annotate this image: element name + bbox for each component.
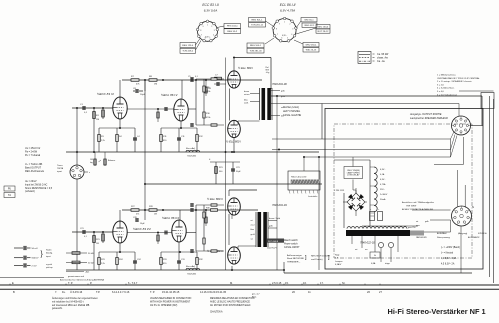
svg-text:Pa = 2×6W: Pa = 2×6W — [25, 151, 38, 154]
svg-text:1 = Mittelanschluss: 1 = Mittelanschluss — [437, 74, 457, 77]
svg-text:mit induktiver Ind. M-400+60: mit induktiver Ind. M-400+600 t — [52, 300, 84, 303]
svg-text:AUTOMATIK: AUTOMATIK — [467, 236, 480, 239]
svg-text:6.12.4.3.7.9.16: 6.12.4.3.7.9.16 — [112, 290, 130, 294]
svg-text:PARLEURS: PARLEURS — [416, 236, 427, 239]
svg-text:AV AUX CONTACTS A DAN/LIFE: AV AUX CONTACTS A DAN/LIFE — [401, 208, 434, 211]
svg-text:2: 2 — [289, 23, 290, 25]
svg-text:+Ug: +Ug — [266, 72, 270, 74]
svg-text:P.: P. — [90, 281, 92, 285]
svg-text:gelb: gelb — [425, 221, 429, 223]
svg-text:Us = 25mV für: Us = 25mV für — [25, 147, 41, 150]
svg-text:½ECL 86 I'2: ½ECL 86 I'2 — [161, 93, 178, 97]
svg-text:WITH HIGH POWER IN INSTRUMEN: WITH HIGH POWER IN INSTRUMENT — [150, 301, 191, 303]
svg-text:Ca - Au: Ca - Au — [377, 60, 386, 63]
svg-text:STECK A: STECK A — [478, 232, 487, 235]
svg-text:Bandg.: Bandg. — [46, 253, 53, 255]
svg-text:9: 9 — [279, 23, 280, 25]
svg-text:7: 7 — [277, 34, 278, 36]
svg-text:7.: 7. — [55, 290, 57, 294]
svg-text:5 = 4,6: 5 = 4,6 — [437, 91, 445, 93]
svg-text:470k: 470k — [206, 91, 210, 93]
svg-text:6,3V ~: 6,3V ~ — [282, 35, 287, 37]
svg-text:pick-up: pick-up — [45, 267, 54, 269]
svg-text:E: E — [12, 281, 14, 285]
svg-text:3: 3 — [214, 30, 215, 32]
svg-text:ROT-GELB: ROT-GELB — [268, 241, 279, 243]
svg-text:blau: blau — [251, 229, 255, 231]
svg-text:1M: 1M — [90, 159, 93, 161]
svg-text:Strom RESISTANCE = 0,5: Strom RESISTANCE = 0,5 — [25, 187, 53, 190]
svg-text:grün: grün — [281, 96, 285, 98]
svg-text:AVEC LE BLOC HAUTE FREQUENCE: AVEC LE BLOC HAUTE FREQUENCE — [210, 300, 250, 303]
svg-text:ECC 83 I-II: ECC 83 I-II — [202, 3, 218, 7]
svg-text:5: 5 — [287, 38, 288, 40]
svg-text:WID 23-15: WID 23-15 — [306, 50, 317, 52]
svg-text:und Primär): und Primär) — [311, 258, 323, 261]
svg-text:Rauch switch: Rauch switch — [284, 239, 298, 242]
svg-text:LEFT CHANNEL: LEFT CHANNEL — [283, 110, 301, 113]
svg-text:47k: 47k — [136, 214, 139, 216]
svg-text:3 = 2,6: 3 = 2,6 — [437, 84, 445, 86]
svg-text:1M: 1M — [154, 84, 157, 86]
svg-text:input: input — [46, 255, 51, 258]
svg-text:REG 123-4: REG 123-4 — [182, 45, 194, 47]
svg-text:träge: träge — [385, 262, 391, 265]
svg-text:Input bei 2W/16 Ω AC: Input bei 2W/16 Ω AC — [25, 183, 48, 186]
svg-text:6,3V~: 6,3V~ — [380, 179, 386, 181]
svg-text:THE VIEW: THE VIEW — [406, 205, 417, 207]
svg-text:1M: 1M — [96, 119, 99, 121]
svg-text:Rechter (unten): Rechter (unten) — [283, 106, 299, 109]
svg-text:AS P.U.Ω. OHM/EMF (MV): AS P.U.Ω. OHM/EMF (MV) — [150, 304, 178, 307]
svg-text:TB/TA: TB/TA — [57, 167, 64, 170]
svg-text:2(U) HL-FI: 2(U) HL-FI — [267, 248, 277, 250]
svg-text:TA: TA — [8, 194, 11, 197]
svg-text:ROT 28-12: ROT 28-12 — [318, 31, 330, 33]
svg-text:6,3V ~: 6,3V ~ — [205, 36, 210, 38]
svg-text:14.16.0.W.20.15.21.05: 14.16.0.W.20.15.21.05 — [200, 290, 227, 294]
svg-text:9: 9 — [203, 26, 204, 28]
svg-text:1M: 1M — [96, 243, 99, 245]
svg-text:1: 1 — [284, 22, 285, 24]
svg-text:½ECC 83 I'2: ½ECC 83 I'2 — [97, 92, 114, 96]
svg-text:0,1A: 0,1A — [380, 173, 385, 176]
svg-text:6,3V 0,6A: 6,3V 0,6A — [204, 9, 218, 13]
svg-text:Anschlüsse auf / Ölfüllwendgre: Anschlüsse auf / Ölfüllwendgreifen — [401, 201, 435, 204]
svg-text:3: 3 — [292, 28, 293, 30]
svg-text:braun / Gelb: braun / Gelb — [269, 218, 281, 220]
svg-text:Balance: Balance — [108, 160, 116, 162]
svg-text:50 kΩ: 50 kΩ — [88, 262, 94, 264]
svg-text:½ ELL 800 II: ½ ELL 800 II — [207, 197, 223, 201]
svg-text:+Ant: +Ant — [85, 271, 90, 274]
svg-text:PU: PU — [8, 188, 12, 191]
svg-text:T.P.: T.P. — [96, 290, 100, 294]
svg-text:½ECL 86 II'2: ½ECL 86 II'2 — [162, 216, 180, 220]
svg-text:55V~: 55V~ — [380, 189, 386, 191]
svg-text:4,75A: 4,75A — [380, 183, 386, 186]
svg-text:15.21.10.05.15: 15.21.10.05.15 — [162, 290, 180, 294]
svg-text:Ue = 20mV: Ue = 20mV — [25, 181, 37, 183]
svg-text:CANAL DROIT: CANAL DROIT — [284, 246, 300, 249]
svg-text:F 234 1113: F 234 1113 — [334, 190, 345, 192]
svg-text:Radio: Radio — [46, 250, 52, 252]
svg-text:AUSWAHL: AUSWAHL — [436, 232, 447, 235]
svg-text:7040-091-04: 7040-091-04 — [272, 203, 287, 207]
svg-text:7040-091-00: 7040-091-00 — [272, 82, 287, 86]
svg-text:AU MOYEN D'UN INSTRUMENT ELE: AU MOYEN D'UN INSTRUMENT ELEC — [210, 304, 251, 307]
svg-text:ws-rt: ws-rt — [251, 224, 256, 227]
svg-text:8: 8 — [276, 28, 277, 30]
svg-text:REC-Pu/channels: REC-Pu/channels — [25, 170, 45, 173]
svg-text:½ ELL 800 I: ½ ELL 800 I — [238, 66, 253, 70]
svg-text:50µF: 50µF — [236, 171, 241, 173]
svg-text:Abst.: Abst. — [252, 296, 257, 299]
svg-text:(schwarz): (schwarz) — [25, 190, 35, 193]
svg-text:Lautstärke: Lautstärke — [308, 195, 318, 198]
svg-text:Lampen: Lampen — [335, 261, 343, 263]
svg-text:6: 6 — [281, 38, 282, 40]
svg-text:7040-022-01: 7040-022-01 — [360, 241, 375, 245]
svg-text:REG 55-2: REG 55-2 — [227, 31, 238, 33]
svg-text:TON 281-04: TON 281-04 — [250, 50, 263, 52]
svg-text:Band OUTPUT: Band OUTPUT — [25, 167, 42, 170]
svg-text:Power switch: Power switch — [284, 243, 298, 246]
svg-text:getauscht.: getauscht. — [52, 307, 63, 310]
svg-text:Höhen 2(s) treble: Höhen 2(s) treble — [291, 176, 307, 179]
svg-text:2,2k: 2,2k — [101, 140, 105, 142]
svg-text:WID 65-1: WID 65-1 — [304, 19, 314, 21]
svg-text:Netzspannung: Netzspannung — [437, 236, 451, 239]
svg-text:½ECC 83 II'2: ½ECC 83 II'2 — [133, 227, 151, 231]
svg-text:T. P.: T. P. — [68, 281, 73, 285]
svg-text:B: B — [13, 290, 15, 294]
svg-text:grau: grau — [416, 224, 420, 227]
svg-text:Bass-Adj.: Bass-Adj. — [186, 265, 196, 268]
svg-text:CENTRALIZADOR 7 PIN 8 CLIP CE: CENTRALIZADOR 7 PIN 8 CLIP CENTRAL — [437, 77, 480, 80]
svg-text:REG 02-1: REG 02-1 — [305, 25, 316, 27]
svg-text:6 - T.4.7: 6 - T.4.7 — [128, 281, 138, 285]
svg-text:2×300V: 2×300V — [380, 193, 388, 196]
svg-text:crystal: crystal — [46, 263, 53, 266]
svg-text:VALVES MEASURED IN CONNECTION: VALVES MEASURED IN CONNECTION — [150, 297, 192, 300]
svg-text:Außenanzeiger: Außenanzeiger — [287, 254, 302, 257]
svg-text:Nr.: Nr. — [342, 281, 346, 285]
svg-text:LOW DELAY: LOW DELAY — [347, 173, 360, 176]
svg-text:16µF: 16µF — [140, 223, 145, 225]
svg-text:Ü.S.P.9.16: Ü.S.P.9.16 — [70, 290, 83, 294]
svg-text:blau: blau — [244, 99, 248, 101]
svg-text:ECL 86 I-II: ECL 86 I-II — [280, 3, 296, 7]
svg-text:Ausgangs- OUTPUT SORTIE: Ausgangs- OUTPUT SORTIE — [409, 113, 442, 116]
svg-text:REG 921-1: REG 921-1 — [252, 19, 264, 21]
svg-text:500mV: 500mV — [32, 258, 39, 260]
svg-text:½ ELL 800 I: ½ ELL 800 I — [226, 140, 241, 144]
svg-text:4 = 3,4 Anschluss: 4 = 3,4 Anschluss — [437, 87, 455, 90]
svg-text:log: log — [90, 162, 93, 164]
svg-text:1M: 1M — [154, 214, 157, 216]
svg-text:TON 429-2: TON 429-2 — [182, 51, 194, 53]
svg-text:470k: 470k — [206, 117, 210, 119]
svg-text:15.: 15. — [285, 281, 289, 285]
svg-text:[~ = +230V (Band): [~ = +230V (Band) — [441, 247, 460, 249]
svg-text:CANAL GAUCHE: CANAL GAUCHE — [283, 114, 302, 117]
svg-text:M.: M. — [230, 281, 233, 285]
svg-text:ws: ws — [365, 249, 367, 251]
svg-text:17.: 17. — [320, 281, 324, 285]
svg-text:REG 104-1: REG 104-1 — [250, 45, 262, 47]
svg-text:[~ = Neutral: [~ = Neutral — [441, 252, 453, 255]
svg-text:16.: 16. — [303, 281, 307, 285]
svg-text:2,2k: 2,2k — [101, 263, 105, 265]
svg-text:auf insensured MDA auf- Multi: auf insensured MDA auf- Multital MB — [52, 304, 90, 307]
svg-text:Hi-Fi Stereo-Verstärker NF 1: Hi-Fi Stereo-Verstärker NF 1 — [388, 307, 486, 316]
svg-text:1,2 6,3V~ 0,1A: 1,2 6,3V~ 0,1A — [441, 257, 457, 260]
svg-text:braun: braun — [244, 91, 249, 93]
svg-text:7012-601: 7012-601 — [187, 156, 197, 158]
svg-text:Tuner: Tuner — [57, 165, 63, 167]
svg-text:2.5.6.15: 2.5.6.15 — [272, 281, 282, 285]
svg-text:50 kΩ: 50 kΩ — [88, 253, 94, 255]
svg-text:ges. 4-7: ges. 4-7 — [252, 294, 260, 296]
svg-text:T. P.: T. P. — [150, 290, 155, 294]
svg-text:TERMINER –: TERMINER – — [287, 261, 301, 263]
svg-text:MESURES RELATIVES EN CONNECT: MESURES RELATIVES EN CONNECTION — [210, 297, 255, 300]
svg-text:50 mV: 50 mV — [32, 248, 39, 250]
svg-text:4,5 6,3V~ 2A: 4,5 6,3V~ 2A — [441, 263, 455, 266]
svg-text:1: 1 — [207, 24, 208, 26]
svg-text:2 = 1 Lautspr. / SPEAKER /: 2 = 1 Lautspr. / SPEAKER / chassis — [437, 80, 472, 83]
svg-text:Lautsprecher SPEAKER PARLEUR: Lautsprecher SPEAKER PARLEUR — [410, 117, 448, 120]
svg-text:GEL 150-4: GEL 150-4 — [318, 26, 329, 28]
svg-text:rot-ws: rot-ws — [244, 93, 249, 96]
svg-text:50mA: 50mA — [380, 198, 386, 201]
svg-text:Regl: Regl — [335, 255, 340, 257]
svg-text:2: 2 — [211, 26, 212, 28]
svg-text:6,3A/V: 6,3A/V — [335, 263, 342, 266]
svg-text:Fu.: Fu. — [62, 290, 66, 294]
svg-text:Pu = 7 k/kanal: Pu = 7 k/kanal — [25, 154, 41, 157]
svg-text:4: 4 — [213, 35, 214, 37]
svg-text:8: 8 — [200, 30, 201, 32]
svg-text:U~ = Tonbd.-NB.: U~ = Tonbd.-NB. — [25, 163, 43, 166]
svg-text:Bass-Adj.: Bass-Adj. — [186, 147, 196, 150]
svg-text:0,8A: 0,8A — [371, 262, 376, 265]
svg-text:TON 281-12: TON 281-12 — [251, 25, 264, 27]
svg-text:CHALTEN A: CHALTEN A — [210, 311, 223, 314]
svg-text:N: N — [472, 205, 474, 209]
svg-text:gemeinsame und: gemeinsame und — [68, 276, 85, 278]
svg-text:Rand NETWORK: Rand NETWORK — [287, 258, 305, 260]
svg-text:(Ausgang): (Ausgang) — [458, 232, 468, 235]
svg-text:6,3V 4,75A: 6,3V 4,75A — [280, 9, 295, 13]
svg-text:GRU 150-1: GRU 150-1 — [305, 44, 317, 46]
svg-text:PEG 104-1: PEG 104-1 — [227, 26, 239, 28]
svg-text:6,3V~: 6,3V~ — [380, 169, 386, 171]
svg-text:4: 4 — [291, 34, 292, 36]
svg-text:Änderungen und Drücke der unge: Änderungen und Drücke der ungezeichneten — [52, 297, 98, 300]
svg-text:7: 7 — [201, 35, 202, 37]
svg-text:ge-bl: ge-bl — [251, 234, 256, 236]
svg-text:2 mV: 2 mV — [32, 265, 38, 267]
svg-text:grau 250: grau 250 — [408, 226, 415, 229]
svg-text:input: input — [57, 170, 62, 173]
svg-text:7012-601: 7012-601 — [187, 274, 197, 276]
svg-text:Antennenbuchse / Antennen-Erdu: Antennenbuchse / Antennen-Erdung ANTENNA — [60, 278, 105, 281]
